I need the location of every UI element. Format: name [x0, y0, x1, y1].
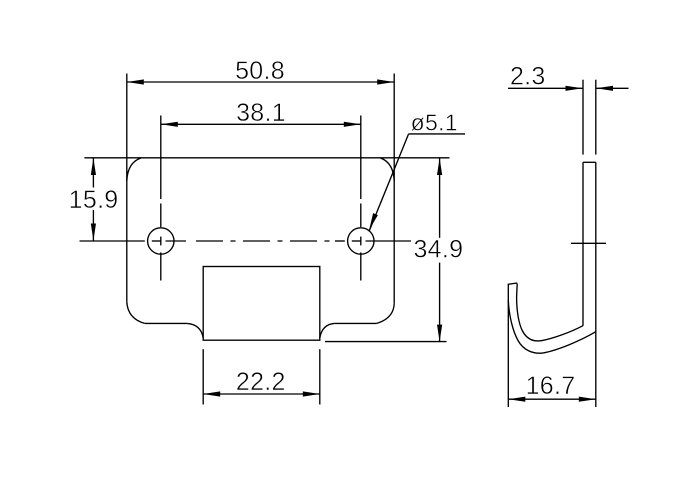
hook tip outer face with extension to 16.7	[507, 284, 509, 407]
arrow 38.1 left	[161, 122, 178, 127]
side view right face with extension to 16.7	[595, 162, 597, 407]
arrow 2.3 right	[596, 86, 613, 91]
34.9 bottom extension line	[325, 341, 447, 343]
hook inner profile	[517, 284, 583, 341]
dimension 34.9 line (broken by text)	[439, 158, 441, 238]
leader line for hole diameter	[369, 134, 408, 231]
fillet bottom-right	[377, 304, 395, 324]
arrow 15.9 top	[91, 158, 96, 175]
leader underline for hole diameter	[409, 133, 465, 135]
arrow 34.9 bottom	[437, 325, 442, 342]
svg-text:16.7: 16.7	[526, 372, 576, 400]
dimension 16.7 line	[508, 398, 596, 400]
arrow 38.1 right	[344, 122, 361, 127]
fillet top-right	[380, 158, 394, 181]
plate bottom edge left	[145, 322, 188, 324]
side view left face	[582, 162, 584, 325]
side view extension lines for 2.3	[582, 80, 584, 155]
svg-text:2.3: 2.3	[510, 63, 546, 91]
horizontal centerline through holes	[80, 240, 145, 242]
fillet bottom-left	[127, 302, 145, 324]
arrow 15.9 bottom	[91, 224, 96, 241]
22.2 extension line left	[202, 349, 204, 404]
arrow 16.7 left	[508, 397, 525, 402]
fillet top-left	[127, 158, 141, 181]
plate top edge with extension lines	[84, 157, 449, 159]
svg-text:15.9: 15.9	[69, 186, 119, 214]
arrow 22.2 left	[203, 391, 220, 396]
vertical centerline right hole (also 38.1 extension)	[360, 116, 362, 200]
side view part top cap	[583, 161, 596, 163]
dimension 15.9 line (broken by text)	[92, 158, 94, 188]
plate left edge with extension line	[126, 74, 128, 302]
dimension 22.2 line	[203, 393, 320, 395]
hole right	[348, 228, 374, 254]
hook outer profile	[508, 300, 596, 353]
svg-text:34.9: 34.9	[413, 236, 463, 264]
svg-text:22.2: 22.2	[236, 368, 286, 396]
dimension 50.8 line	[127, 81, 394, 83]
plate right edge with extension line	[393, 74, 395, 304]
plate bottom edge right	[334, 322, 376, 324]
arrow 50.8 left	[127, 79, 144, 84]
arrow 16.7 right	[579, 397, 596, 402]
hook tip cap	[508, 283, 518, 284]
tab outline	[203, 267, 320, 341]
22.2 extension line right	[319, 349, 321, 404]
hole left	[148, 228, 174, 254]
vertical centerline left hole (also 38.1 extension)	[160, 116, 162, 200]
svg-text:ø5.1: ø5.1	[411, 110, 458, 136]
dimension 2.3 line with leader from text	[508, 87, 583, 89]
arrow leader to hole	[369, 213, 378, 230]
svg-text:50.8: 50.8	[235, 57, 285, 85]
arrow 34.9 top	[437, 158, 442, 175]
arrow 50.8 right	[377, 79, 394, 84]
svg-text:38.1: 38.1	[236, 99, 286, 127]
fillet bottom edge into tab right	[320, 323, 335, 338]
arrow 22.2 right	[303, 391, 320, 396]
arrow 2.3 left	[566, 86, 583, 91]
side view centerline tick	[571, 242, 606, 244]
fillet bottom edge into tab left	[187, 323, 203, 338]
dimension 38.1 line	[161, 123, 361, 125]
